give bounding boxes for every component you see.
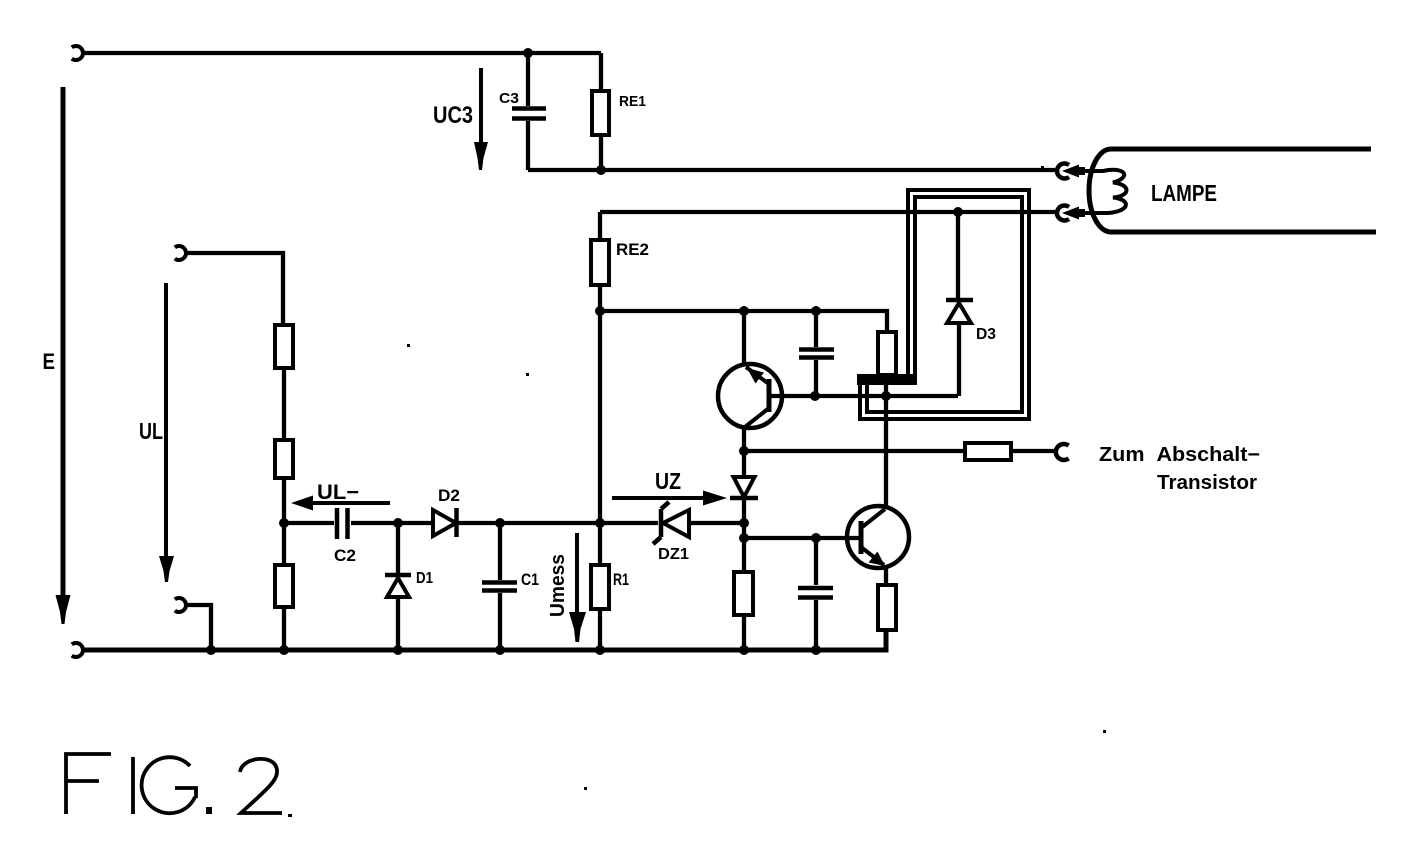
svg-text:D3: D3 — [976, 326, 996, 343]
svg-text:RE2: RE2 — [616, 240, 649, 259]
svg-text:C3: C3 — [499, 90, 519, 107]
svg-text:Umess: Umess — [547, 554, 569, 617]
svg-text:RE1: RE1 — [619, 93, 646, 110]
svg-text:UL: UL — [139, 418, 163, 444]
svg-text:DZ1: DZ1 — [658, 546, 689, 563]
svg-text:R1: R1 — [613, 570, 629, 589]
svg-text:UZ: UZ — [655, 468, 681, 494]
svg-text:Zum Abschalt−: Zum Abschalt− — [1099, 444, 1260, 466]
svg-text:UL−: UL− — [317, 481, 359, 504]
svg-text:Transistor: Transistor — [1157, 472, 1257, 494]
svg-text:E: E — [43, 349, 56, 374]
svg-text:UC3: UC3 — [433, 102, 473, 129]
svg-text:LAMPE: LAMPE — [1151, 180, 1217, 206]
svg-text:D2: D2 — [438, 486, 460, 505]
svg-text:C1: C1 — [521, 570, 539, 589]
svg-text:C2: C2 — [334, 546, 356, 565]
svg-text:D1: D1 — [416, 570, 433, 587]
